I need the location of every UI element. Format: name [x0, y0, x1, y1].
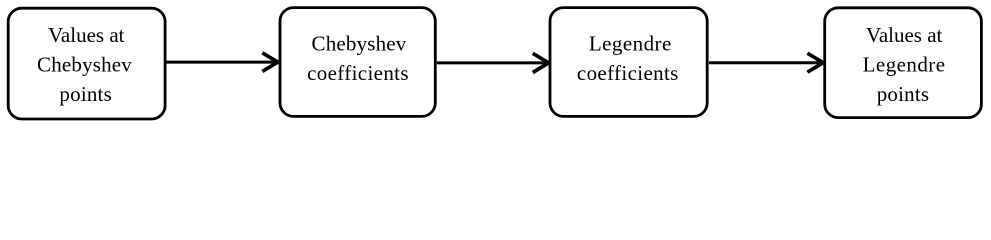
svg-text:Legendre: Legendre: [863, 53, 946, 77]
svg-text:Chebyshev: Chebyshev: [312, 32, 407, 56]
node: arrow 2 head: [533, 53, 549, 72]
box: Values at Legendre points: [825, 8, 982, 118]
svg-text:points: points: [59, 82, 112, 106]
box: Legendre coefficients: [550, 8, 707, 117]
svg-text:Values at: Values at: [866, 23, 943, 47]
svg-text:Values at: Values at: [48, 23, 125, 47]
box: Chebyshev coefficients: [280, 8, 435, 117]
svg-text:coefficients: coefficients: [577, 61, 679, 85]
node: arrow 3 head: [807, 53, 823, 72]
svg-text:coefficients: coefficients: [307, 61, 409, 85]
svg-text:Legendre: Legendre: [589, 32, 672, 56]
svg-text:Chebyshev: Chebyshev: [37, 52, 132, 76]
box: Values at Chebyshev points: [8, 8, 165, 119]
wire: arrow 3 shaft: [709, 61, 821, 64]
svg-text:points: points: [877, 82, 930, 106]
wire: arrow 1 shaft: [167, 61, 276, 64]
wire: arrow 2 shaft: [437, 61, 547, 64]
node: arrow 1 head: [262, 53, 278, 72]
